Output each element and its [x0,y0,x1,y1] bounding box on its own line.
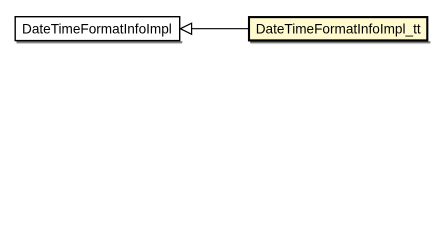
drop shadow under superclass box [17,41,183,44]
class box DateTimeFormatInfoImpl (superclass) [15,17,180,41]
wire: inheritance connector line [192,28,249,30]
svg-text:DateTimeFormatInfoImpl: DateTimeFormatInfoImpl [22,21,172,36]
svg-text:DateTimeFormatInfoImpl_tt: DateTimeFormatInfoImpl_tt [256,21,421,36]
class box DateTimeFormatInfoImpl_tt (subclass, highlighted) [249,17,427,40]
inheritance arrowhead (hollow triangle) [180,23,191,34]
drop shadow under subclass box [250,42,430,45]
